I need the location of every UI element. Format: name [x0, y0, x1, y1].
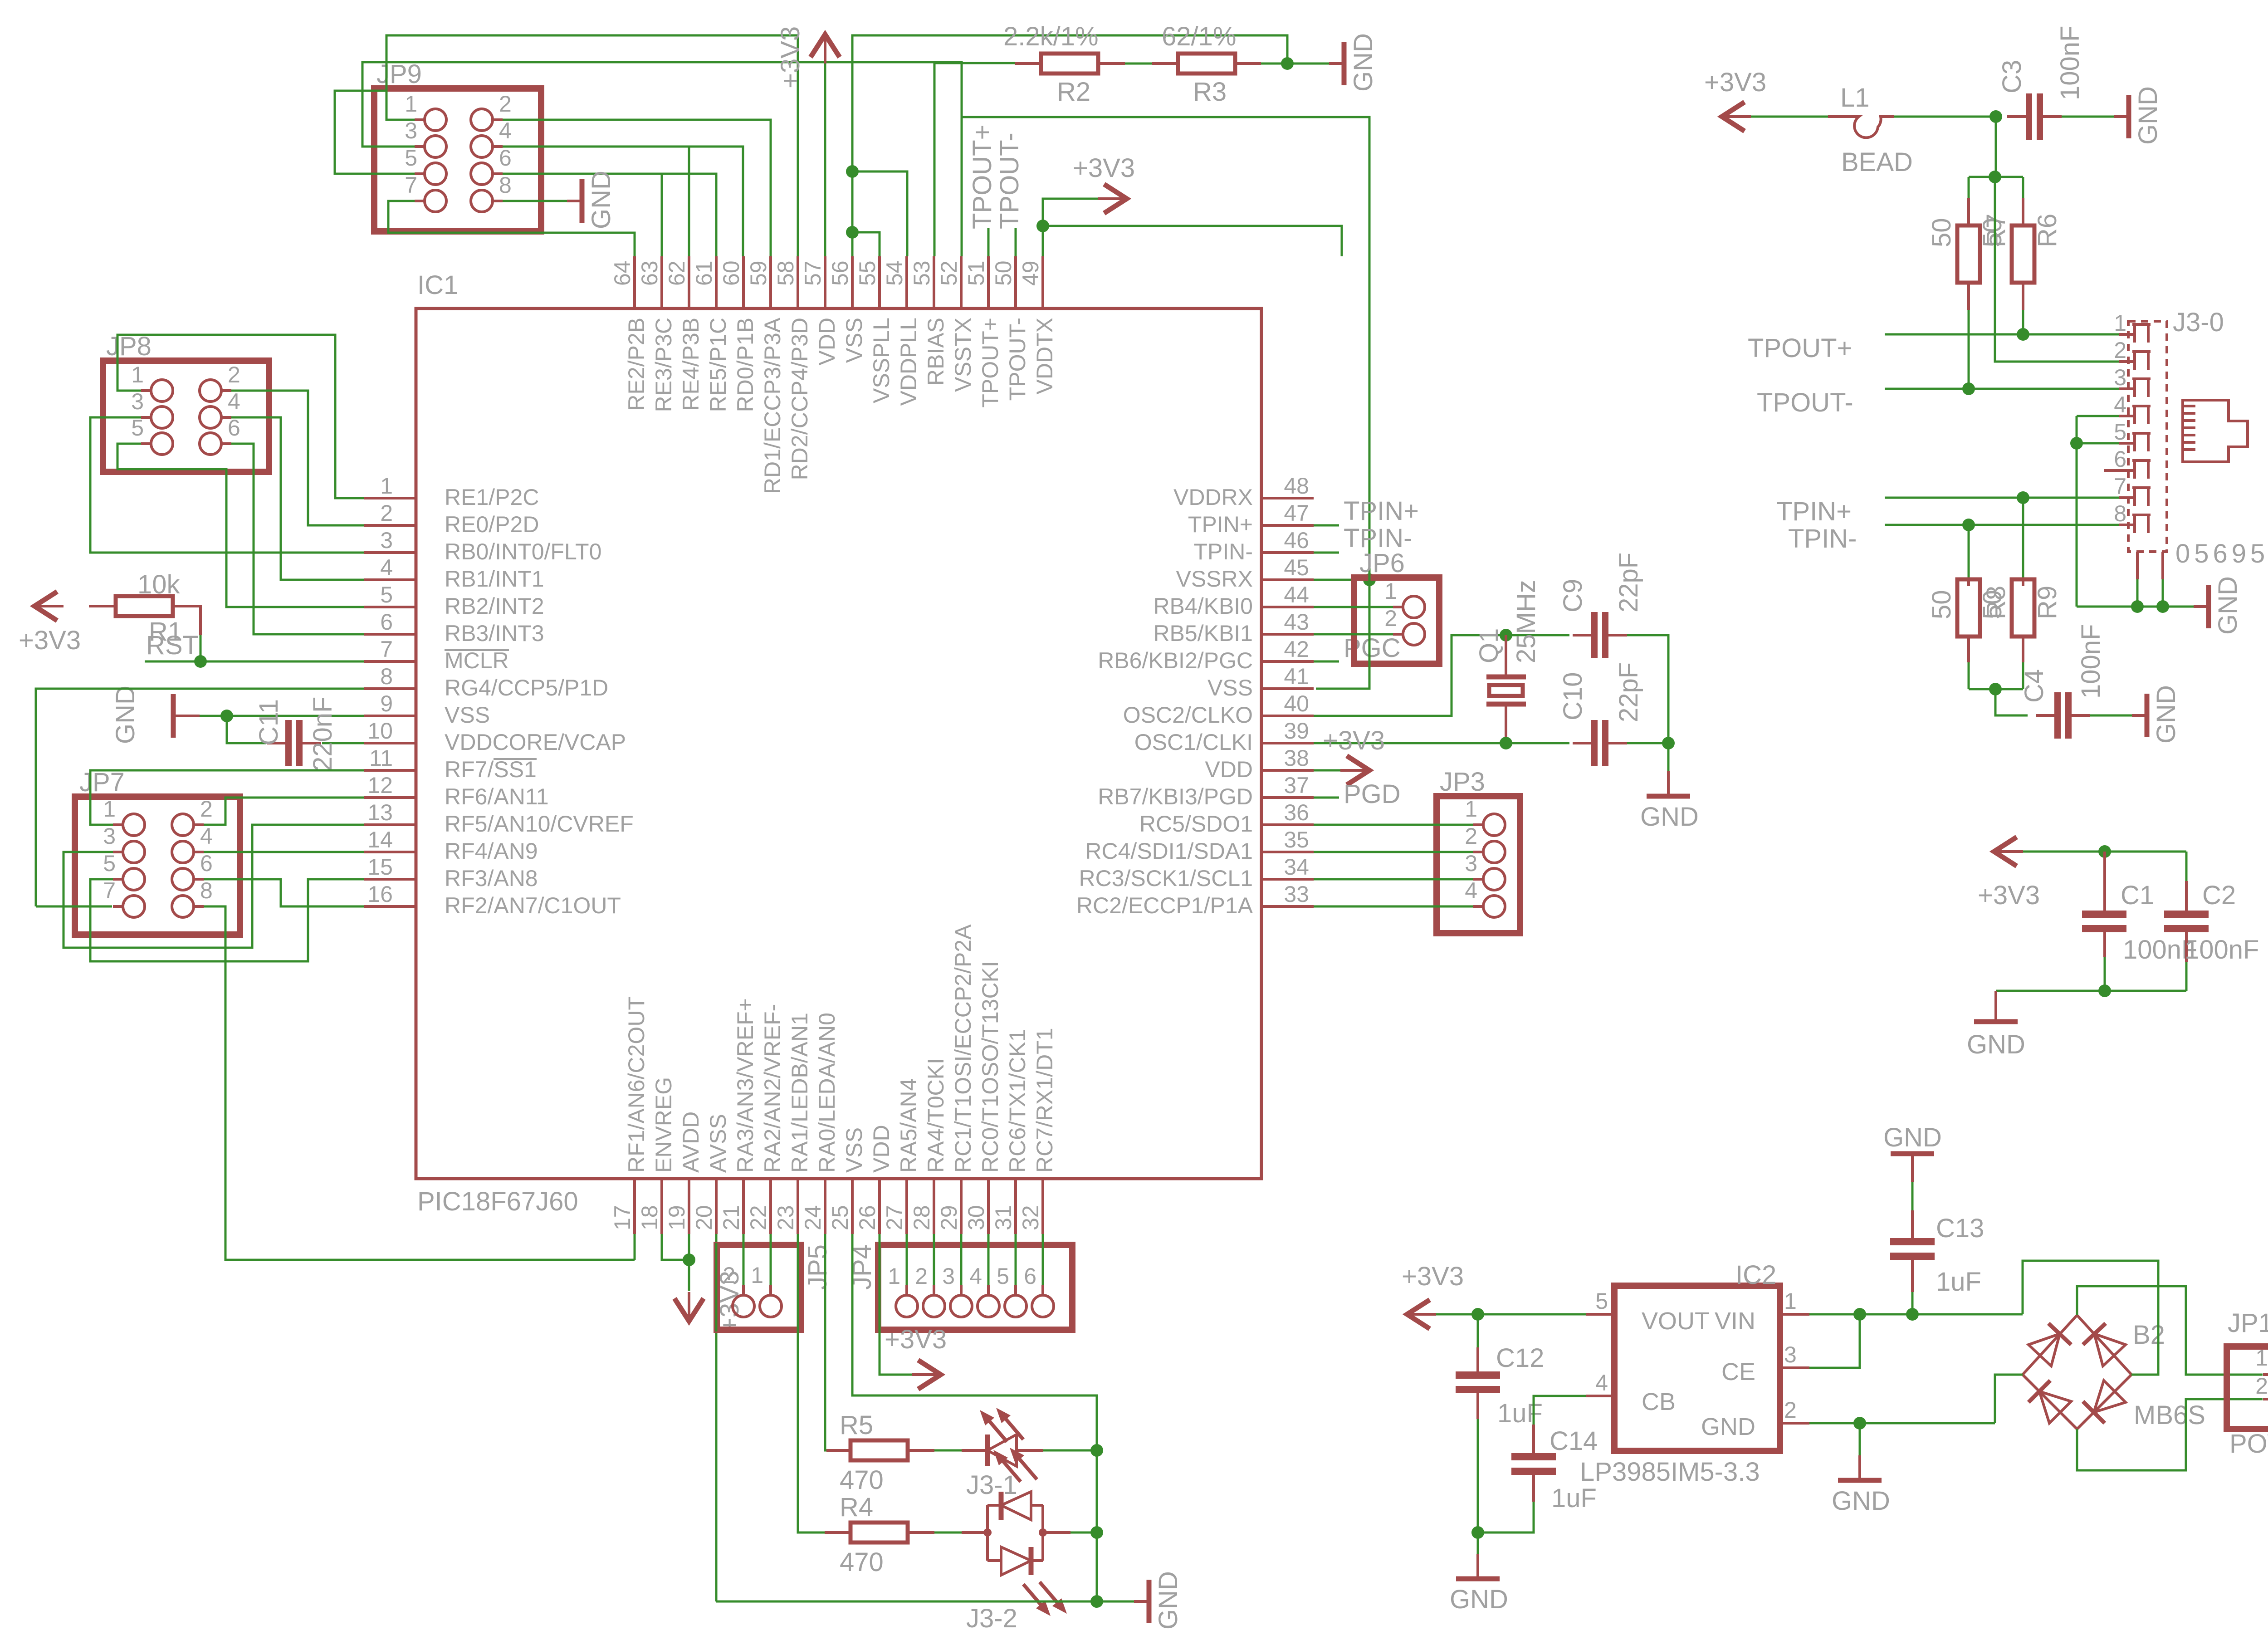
svg-text:3: 3 — [405, 118, 417, 143]
net stub TPIN- at pin46 — [1314, 552, 1339, 554]
net stub PGD at pin37 — [1314, 797, 1339, 799]
svg-text:RE5/P1C: RE5/P1C — [705, 318, 731, 412]
svg-text:C12: C12 — [1496, 1343, 1544, 1373]
svg-text:GND: GND — [2133, 86, 2163, 145]
wire TPIN- to J3-0 pin8 — [1885, 524, 2119, 526]
pin 44 stub — [1261, 606, 1314, 608]
junction VSS net — [1363, 573, 1376, 586]
pin 7 stub — [364, 660, 416, 663]
connector J3-0 (RJ45 magjack) — [2128, 321, 2167, 552]
+3V3 supply arrow (left) — [1994, 837, 2017, 866]
svg-text:50: 50 — [1927, 590, 1956, 619]
wire C14 to ground node — [1478, 1502, 1534, 1532]
wire R5 to LED1 — [934, 1449, 962, 1452]
wire +3V3 to IC1 pin57 — [824, 64, 826, 256]
pin 30 stub — [987, 1179, 990, 1234]
wire JP8.2 to IC1 pin2 — [231, 391, 364, 525]
pin 37 stub — [1261, 796, 1314, 799]
IC2 pin 3 (CE) — [1780, 1366, 1809, 1369]
pin 26 stub — [878, 1179, 881, 1234]
svg-text:ENVREG: ENVREG — [651, 1077, 676, 1173]
svg-text:RA5/AN4: RA5/AN4 — [896, 1078, 921, 1173]
svg-text:AVDD: AVDD — [678, 1111, 704, 1173]
pin 27 stub — [905, 1179, 908, 1234]
wire IC2 GND to bridge minus — [1809, 1422, 1995, 1425]
wire C12 to ground — [1477, 1419, 1479, 1532]
pin 59 stub — [769, 256, 772, 308]
pin 42 stub — [1261, 660, 1314, 663]
svg-text:VDD: VDD — [1205, 757, 1253, 782]
pin 8 stub — [364, 687, 416, 690]
wire JP7.4 to IC1 pin14 — [204, 851, 364, 853]
svg-text:4: 4 — [499, 118, 512, 143]
wire over JP9 bottom edge — [388, 232, 635, 234]
svg-text:RF1/AN6/C2OUT: RF1/AN6/C2OUT — [624, 996, 649, 1173]
wire JP8.1 to IC1 pin1 — [117, 335, 364, 498]
capacitor C11 — [285, 720, 292, 766]
svg-text:8: 8 — [2114, 501, 2126, 526]
wire pin23 to R4 — [798, 1234, 825, 1532]
JP9 pin 3 — [425, 136, 446, 157]
svg-text:GND: GND — [1154, 1571, 1183, 1630]
svg-text:3: 3 — [131, 389, 144, 414]
svg-text:RE3/P3C: RE3/P3C — [651, 318, 676, 412]
svg-text:PGD: PGD — [1344, 779, 1401, 809]
ground at C1/C2 — [1994, 991, 1997, 1021]
svg-text:TPOUT-: TPOUT- — [1005, 318, 1030, 401]
svg-text:31: 31 — [991, 1205, 1016, 1230]
svg-text:2: 2 — [2255, 1373, 2268, 1399]
JP8 pin 2 — [200, 380, 221, 401]
svg-text:C1: C1 — [2121, 881, 2154, 910]
svg-text:RE2/P2B: RE2/P2B — [624, 318, 649, 411]
svg-text:39: 39 — [1284, 718, 1309, 744]
junction C12/C14 — [1471, 1526, 1484, 1539]
svg-text:IC1: IC1 — [417, 270, 458, 300]
pin 4 stub — [364, 578, 416, 581]
svg-text:46: 46 — [1284, 528, 1309, 553]
wire CB to C14 — [1534, 1396, 1586, 1425]
svg-text:+3V3: +3V3 — [1978, 881, 2040, 910]
wire pin26 over JP4 edge — [879, 1243, 881, 1332]
JP7 pin 4 — [172, 841, 194, 863]
connector JP9 — [374, 88, 541, 231]
wire J3-0 pin4 — [2077, 415, 2119, 417]
svg-text:R3: R3 — [1193, 77, 1227, 107]
wire IC1 pin8 net — [36, 689, 364, 906]
junction LED2 rail — [1090, 1526, 1103, 1539]
pin 45 stub — [1261, 578, 1314, 581]
svg-text:2: 2 — [915, 1263, 928, 1289]
svg-text:RF2/AN7/C1OUT: RF2/AN7/C1OUT — [445, 893, 621, 918]
B2 diode top-right — [2094, 1334, 2126, 1366]
JP7 pin 1 — [123, 814, 145, 836]
svg-text:R5: R5 — [840, 1410, 873, 1440]
svg-text:RC4/SDI1/SDA1: RC4/SDI1/SDA1 — [1085, 838, 1253, 864]
svg-text:6: 6 — [380, 609, 393, 635]
svg-text:2.2k/1%: 2.2k/1% — [1003, 22, 1099, 51]
pin 28 stub — [933, 1179, 935, 1234]
wire C11 to IC1 pin10 — [322, 742, 364, 744]
svg-text:RG4/CCP5/P1D: RG4/CCP5/P1D — [445, 675, 608, 700]
svg-text:VSS: VSS — [1207, 675, 1253, 700]
svg-text:36: 36 — [1284, 800, 1309, 825]
pin 43 stub — [1261, 633, 1314, 636]
resistor R7 — [1957, 225, 1980, 283]
svg-text:VDDPLL: VDDPLL — [896, 318, 921, 406]
junction C13 tap — [1906, 1308, 1919, 1321]
pin 55 stub — [878, 256, 881, 308]
junction C3 node — [1989, 110, 2002, 123]
LED1 emission arrows — [986, 1417, 1007, 1442]
ground at C12 — [1476, 1554, 1479, 1579]
svg-text:JP7: JP7 — [79, 768, 125, 797]
wire pin17 drop — [634, 1234, 636, 1260]
svg-text:13: 13 — [367, 800, 393, 825]
junction R6/TPOUT+ — [2017, 328, 2029, 341]
svg-text:C14: C14 — [1549, 1426, 1598, 1456]
wire IC1 pin43 to JP6.2 — [1314, 633, 1393, 636]
svg-text:C13: C13 — [1936, 1214, 1984, 1243]
svg-text:CB: CB — [1642, 1388, 1676, 1415]
svg-text:59: 59 — [746, 260, 771, 286]
JP9 pin 8 — [471, 190, 493, 212]
connector JP7 — [75, 797, 240, 935]
junction LED1 rail — [1090, 1444, 1103, 1457]
JP4 pin 5 — [1005, 1295, 1026, 1317]
svg-text:22: 22 — [746, 1205, 771, 1230]
svg-text:1: 1 — [1384, 578, 1397, 604]
svg-text:VDDRX: VDDRX — [1173, 485, 1253, 510]
JP4 pin 3 — [950, 1295, 972, 1317]
pin 60 stub — [742, 256, 745, 308]
svg-text:L1: L1 — [1840, 83, 1870, 113]
resistor R9 — [2012, 579, 2034, 636]
pin 20 stub — [715, 1179, 718, 1234]
ground below C10 — [1667, 771, 1670, 796]
resistor R4 — [850, 1523, 908, 1542]
capacitor C12 — [1456, 1371, 1500, 1379]
svg-text:J3-1: J3-1 — [966, 1470, 1017, 1500]
JP9 pin 2 — [471, 109, 493, 131]
svg-text:5: 5 — [405, 145, 417, 171]
svg-text:RF3/AN8: RF3/AN8 — [445, 866, 538, 891]
svg-text:RB0/INT0/FLT0: RB0/INT0/FLT0 — [445, 539, 601, 564]
wire JP9.5 — [335, 91, 415, 174]
J3-0 pin 7 contact — [2135, 488, 2148, 506]
svg-text:+3V3: +3V3 — [1073, 153, 1135, 183]
wire pin21 to JP5.2 — [743, 1234, 745, 1290]
svg-text:R9: R9 — [2033, 586, 2062, 619]
svg-text:RBIAS: RBIAS — [923, 318, 948, 386]
wire pin20 over JP5 edge — [715, 1243, 718, 1332]
svg-text:4: 4 — [200, 823, 213, 849]
JP8 pin 3 — [151, 406, 173, 428]
+3V3 supply arrow (right) — [918, 1360, 941, 1389]
wire JP9.6 to IC1 pin61 — [503, 174, 716, 256]
svg-text:VSS: VSS — [841, 1127, 867, 1173]
svg-text:40: 40 — [1284, 691, 1309, 716]
svg-text:10: 10 — [367, 718, 393, 744]
svg-text:VDDTX: VDDTX — [1032, 318, 1057, 394]
svg-text:MCLR: MCLR — [445, 648, 509, 673]
svg-text:TPIN+: TPIN+ — [1776, 497, 1852, 526]
JP4 pin 6 — [1032, 1295, 1054, 1317]
svg-text:5: 5 — [131, 415, 144, 441]
svg-text:48: 48 — [1284, 473, 1309, 499]
wire to ground — [200, 715, 227, 717]
connector JP4 — [878, 1245, 1072, 1330]
pin 13 stub — [364, 823, 416, 826]
svg-text:C3: C3 — [1997, 60, 2027, 93]
svg-text:RF7/SS1: RF7/SS1 — [445, 757, 537, 782]
svg-text:62/1%: 62/1% — [1162, 22, 1236, 51]
svg-text:4: 4 — [228, 389, 240, 414]
svg-text:6: 6 — [2114, 446, 2126, 472]
svg-text:VDD: VDD — [814, 318, 840, 366]
svg-text:RC6/TX1/CK1: RC6/TX1/CK1 — [1005, 1029, 1030, 1173]
wire to C4 — [1995, 689, 2028, 715]
wire branch to IC1 pin63 — [661, 174, 663, 256]
svg-text:MB6S: MB6S — [2134, 1400, 2205, 1430]
J3-0 shield pins to ground — [2137, 552, 2163, 579]
svg-text:47: 47 — [1284, 500, 1309, 526]
wire R8 down — [1968, 662, 1970, 689]
svg-text:GND: GND — [1450, 1585, 1508, 1614]
pin 50 stub — [1014, 256, 1017, 308]
svg-text:VSS: VSS — [841, 318, 867, 363]
wire +3V3 to VOUT — [1436, 1313, 1586, 1316]
svg-text:LP3985IM5-3.3: LP3985IM5-3.3 — [1580, 1457, 1760, 1487]
svg-text:50: 50 — [1927, 218, 1956, 247]
svg-text:100nF: 100nF — [2055, 26, 2085, 100]
pin 47 stub — [1261, 524, 1314, 527]
wire R4 to LED pair — [934, 1532, 962, 1534]
svg-text:64: 64 — [610, 260, 635, 286]
svg-text:44: 44 — [1284, 582, 1309, 607]
svg-text:3: 3 — [942, 1263, 955, 1289]
wire R1 to RST net — [200, 635, 202, 661]
pin 51 stub — [987, 256, 990, 308]
svg-text:49: 49 — [1018, 260, 1043, 286]
junction R8/TPIN- — [1962, 519, 1975, 531]
svg-text:20: 20 — [691, 1205, 717, 1230]
pin 21 stub — [742, 1179, 745, 1234]
svg-text:RE1/P2C: RE1/P2C — [445, 485, 539, 510]
pin 33 stub — [1261, 905, 1314, 908]
inductor L1 BEAD — [1828, 117, 1894, 137]
svg-text:RC2/ECCP1/P1A: RC2/ECCP1/P1A — [1076, 893, 1253, 918]
pin 64 stub — [633, 256, 636, 308]
junction CE tap — [1853, 1308, 1866, 1321]
wire to C13 — [1911, 1292, 1914, 1314]
wire JP7.6 to IC1 pin16 — [204, 879, 364, 906]
svg-text:GND: GND — [2151, 685, 2181, 744]
junction R9/TPIN+ — [2017, 491, 2029, 504]
svg-text:4: 4 — [2114, 392, 2126, 417]
wire R9 down — [2022, 662, 2024, 689]
wire IC1 pin49 to +3V3 arrow — [1043, 199, 1098, 256]
JP7 pin 3 — [123, 841, 145, 863]
pin 36 stub — [1261, 823, 1314, 826]
net stub PGC at pin42 — [1314, 661, 1339, 663]
svg-text:42: 42 — [1284, 636, 1309, 662]
wire riser pin53 — [934, 63, 936, 256]
svg-text:5: 5 — [997, 1263, 1009, 1289]
svg-text:RE4/P3B: RE4/P3B — [678, 318, 704, 411]
pin 56 stub — [851, 256, 854, 308]
svg-text:2: 2 — [2114, 338, 2126, 363]
svg-text:VIN: VIN — [1715, 1307, 1755, 1335]
junction C1 bottom — [2098, 984, 2111, 997]
svg-text:RD1/ECCP3/P3A: RD1/ECCP3/P3A — [760, 317, 785, 494]
svg-text:27: 27 — [882, 1205, 907, 1230]
JP3 pin 4 — [1483, 896, 1505, 917]
svg-text:RC0/T1OSO/T13CKI: RC0/T1OSO/T13CKI — [978, 961, 1003, 1173]
net stub TPIN+ at pin47 — [1314, 524, 1339, 527]
wire JP7.3 to IC1 pin13 — [64, 825, 364, 948]
pin 11 stub — [364, 769, 416, 772]
wire IC1 pin53 to R2 — [934, 62, 1015, 64]
wire R7 to TPOUT- line — [1968, 310, 1970, 389]
svg-text:TPIN+: TPIN+ — [1188, 512, 1253, 537]
JP9 pin 6 — [471, 163, 493, 185]
wire R8-R9 bottom bar — [1969, 688, 2023, 690]
svg-text:RB6/KBI2/PGC: RB6/KBI2/PGC — [1098, 648, 1253, 673]
svg-text:29: 29 — [936, 1205, 962, 1230]
junction R3/pin56 riser — [1281, 57, 1294, 70]
svg-text:8: 8 — [499, 172, 512, 198]
wire LED pair to rail — [1070, 1532, 1097, 1534]
svg-text:1: 1 — [1784, 1288, 1797, 1314]
svg-text:10k: 10k — [137, 570, 181, 599]
svg-text:JP8: JP8 — [106, 332, 152, 361]
+3V3 supply arrow — [811, 34, 840, 57]
capacitor C13 — [1890, 1238, 1935, 1245]
LED J3-1 (LEDA) — [962, 1449, 987, 1452]
svg-text:RC7/RX1/DT1: RC7/RX1/DT1 — [1032, 1028, 1057, 1173]
wire JP7.8 to +3V3 rail — [204, 906, 635, 1260]
wire TPOUT- to J3-0 pin3 — [1885, 388, 2119, 390]
wire arrow to L1 — [1751, 116, 1828, 118]
svg-text:+3V3: +3V3 — [1704, 68, 1766, 97]
svg-text:2: 2 — [723, 1263, 735, 1288]
JP7 pin 5 — [123, 868, 145, 890]
ground at C4 — [2132, 714, 2146, 717]
svg-text:GND: GND — [111, 685, 140, 744]
IC2 pin 2 (GND) — [1780, 1422, 1809, 1425]
wire IC1 pin36 to JP3.1 — [1314, 824, 1473, 826]
svg-text:1: 1 — [103, 796, 116, 822]
wire JP9.1 to IC1 pin58 — [386, 35, 798, 256]
wire pin4/5 to ground bus — [2076, 416, 2078, 607]
svg-text:C4: C4 — [2019, 669, 2049, 703]
wire pin18 drop — [662, 1234, 689, 1260]
wire tap to IC1 pin54 — [852, 171, 907, 256]
junction J3-2 — [1090, 1595, 1103, 1608]
pin 23 stub — [797, 1179, 799, 1234]
svg-text:Q1: Q1 — [1474, 628, 1504, 663]
J3-0 pin 5 contact — [2135, 433, 2148, 451]
svg-text:1: 1 — [405, 91, 417, 117]
wire pin49 to pin48 — [1043, 226, 1342, 256]
pin 48 stub — [1261, 497, 1314, 499]
ground at R3 — [1329, 62, 1343, 65]
wire shield 2 — [2162, 579, 2164, 607]
net stub TPOUT+ at pin51 — [987, 228, 990, 256]
svg-text:J3-2: J3-2 — [966, 1604, 1017, 1633]
pin 57 stub — [824, 256, 826, 308]
wire C9 to ground rail — [1627, 635, 1668, 743]
svg-text:220nF: 220nF — [308, 697, 337, 771]
svg-text:JP5: JP5 — [803, 1244, 832, 1290]
wire IC1 pin9 VSS to ground — [227, 715, 364, 717]
wire L1 to C3 node — [1894, 116, 1996, 118]
wire J3-0 pin5 — [2077, 442, 2119, 445]
ground at JP9.8 — [567, 200, 581, 202]
wire JP7.1 to IC1 pin11 — [90, 770, 364, 825]
JP7 pin 7 — [123, 896, 145, 917]
svg-text:RB2/INT2: RB2/INT2 — [445, 593, 544, 619]
wire to C12 — [1477, 1314, 1479, 1347]
svg-text:7: 7 — [380, 636, 393, 662]
svg-text:1uF: 1uF — [1497, 1399, 1543, 1428]
wire over JP8 bottom edge — [117, 468, 226, 470]
svg-text:C10: C10 — [1558, 672, 1588, 720]
junction C1 top — [2098, 845, 2111, 858]
svg-text:60: 60 — [719, 260, 744, 286]
svg-text:1: 1 — [131, 362, 144, 387]
svg-text:RD0/P1B: RD0/P1B — [733, 318, 758, 412]
pin 49 stub — [1041, 256, 1044, 308]
wire +3V3 top bus — [2023, 851, 2186, 853]
wire crystal top to C9 — [1506, 634, 1569, 636]
svg-text:5: 5 — [1595, 1288, 1608, 1314]
B2 diode top-left — [2028, 1334, 2060, 1366]
svg-text:4: 4 — [380, 555, 393, 580]
wire pin24 to R5 — [825, 1234, 826, 1450]
ground at IC2 — [1858, 1455, 1861, 1480]
svg-text:GND: GND — [587, 171, 616, 229]
svg-text:2: 2 — [200, 796, 213, 822]
svg-text:19: 19 — [664, 1205, 689, 1230]
ground at J3-0 — [2194, 605, 2207, 608]
wire JP9.8 to ground — [503, 200, 567, 202]
svg-text:+3V3: +3V3 — [885, 1325, 947, 1354]
wire pin25 VSS to LED rail — [852, 1234, 1097, 1601]
wire pin28 to JP4.2 — [933, 1234, 935, 1290]
svg-text:2: 2 — [1784, 1397, 1797, 1423]
wire JP8.3 to IC1 pin3 — [90, 417, 364, 553]
JP8 pin 6 — [200, 433, 221, 455]
J3-0 pin 2 contact — [2135, 352, 2148, 370]
wire IC1 pin45 to VSS net — [1314, 579, 1369, 581]
svg-text:50: 50 — [1978, 590, 2007, 619]
wire pin20 AVSS down to J3-2 rail — [715, 1234, 718, 1601]
junction shield — [2156, 600, 2169, 613]
wire pin23 over JP5 edge — [797, 1243, 799, 1332]
junction pin49 net — [1036, 220, 1049, 232]
svg-text:41: 41 — [1284, 664, 1309, 689]
JP9 pin 1 — [425, 109, 446, 131]
+3V3 supply arrow (left) — [1722, 102, 1745, 131]
wire JP8.5 to IC1 pin5 — [117, 444, 364, 607]
svg-text:RD2/CCP4/P3D: RD2/CCP4/P3D — [787, 318, 812, 480]
wire JP7.5 to IC1 pin15 — [90, 879, 364, 961]
svg-text:58: 58 — [773, 260, 798, 286]
svg-text:2: 2 — [228, 362, 240, 387]
wire branch to IC1 pin62 — [688, 147, 690, 256]
